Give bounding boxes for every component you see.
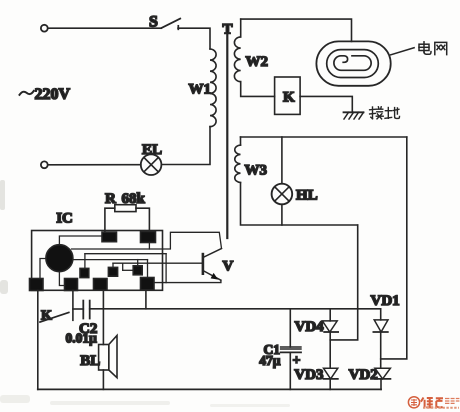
svg-text:47μ: 47μ — [259, 353, 281, 368]
wire W3 loop top — [241, 136, 407, 138]
svg-text:R: R — [105, 191, 116, 207]
wire top AC line to switch — [48, 27, 162, 29]
label ~220V — [20, 91, 34, 95]
capacitor C2 — [82, 301, 84, 319]
wire W2 top to grid symbol — [241, 19, 352, 41]
svg-text:VD2: VD2 — [349, 367, 378, 383]
IC bottom pad 3 — [94, 279, 108, 291]
IC bond wire die to top pad2 and collector loop — [72, 232, 222, 249]
svg-text:0.01μ: 0.01μ — [66, 331, 98, 346]
lamp HL — [272, 184, 293, 205]
IC top pad 1 — [102, 232, 117, 242]
scan smudges — [0, 180, 290, 407]
winding W3 — [240, 137, 242, 145]
wire W1 bottom to lamp EL — [162, 127, 211, 165]
svg-text:K: K — [41, 309, 52, 324]
wire IC pad1 down left rail — [37, 291, 39, 390]
winding W1 — [210, 49, 216, 127]
IC bottom pad 1 — [30, 279, 44, 291]
speaker BL — [99, 345, 109, 371]
wire emitter return to IC pad4 — [154, 280, 221, 282]
terminal bottom-left — [41, 161, 48, 168]
wire W3 bottom — [241, 183, 358, 226]
wire main positive rail C2 to VD1 — [90, 308, 381, 310]
relay coil K — [275, 77, 301, 114]
IC base wire zigzag — [113, 263, 133, 270]
svg-text:VD4: VD4 — [295, 319, 325, 335]
capacitor C1 — [289, 309, 291, 347]
svg-text:BL: BL — [80, 353, 100, 369]
IC bottom pad 2 — [65, 279, 78, 291]
IC box — [32, 231, 163, 291]
svg-text:EL: EL — [142, 142, 162, 158]
svg-text:W1: W1 — [189, 82, 212, 98]
IC bond wire die to bottom pad1 — [40, 259, 46, 279]
switch S blade — [161, 19, 180, 28]
IC die circle — [46, 245, 73, 272]
IC bond wire row y=253.7 to emitter net — [85, 254, 166, 283]
svg-text:S: S — [149, 14, 158, 31]
IC bottom pad 4 — [141, 278, 155, 290]
label 电网 (power grid) hand-drawn glyphs — [419, 42, 447, 55]
diode VD3 — [324, 368, 338, 379]
svg-text:K: K — [283, 90, 295, 106]
switch K blade — [40, 313, 69, 323]
svg-text:220V: 220V — [35, 86, 71, 103]
IC top pad 2 — [141, 232, 156, 243]
wire W3-top down to VD1/VD2 junction — [381, 137, 407, 359]
transistor V collector — [203, 249, 222, 258]
wire speaker to bottom rail — [102, 370, 104, 389]
svg-text:VD3: VD3 — [294, 367, 323, 383]
wire IC pad3 down to speaker — [102, 290, 104, 344]
wire HL to lower rail — [281, 204, 283, 225]
resistor R 68k — [115, 205, 136, 212]
watermark logo — [408, 397, 459, 408]
power grid spiral symbol — [316, 41, 390, 85]
diode VD2 — [375, 368, 391, 379]
pointer line to grid label — [391, 48, 414, 55]
switch S right contact — [177, 26, 179, 30]
wire R left to IC pin — [105, 208, 115, 232]
wire R right to IC pin — [136, 208, 149, 231]
wire W3-bottom down to VD4/VD3 junction — [330, 225, 358, 340]
IC inner square c — [133, 266, 142, 275]
wire EL to bottom terminal — [48, 164, 141, 166]
IC inner square b — [108, 267, 117, 276]
svg-text:T: T — [223, 22, 233, 38]
transistor V emitter with arrow — [203, 271, 221, 281]
wire to C2 — [73, 308, 83, 310]
bottom ground rail — [38, 388, 381, 390]
wire IC pad2 down to switch contact — [72, 290, 74, 320]
ground — [344, 111, 364, 113]
IC bond wire row y=259.6 to bottom pad4 — [73, 260, 148, 278]
svg-text:IC: IC — [56, 211, 73, 227]
wire K to ground — [300, 96, 352, 112]
svg-text:VD1: VD1 — [371, 293, 400, 309]
winding W2 — [240, 19, 242, 37]
transistor V base wire — [113, 262, 203, 264]
diode VD1 — [380, 309, 382, 320]
IC bond wire die to top pad1 — [59, 236, 102, 245]
wire W2 bottom to relay K — [241, 82, 275, 97]
svg-text:V: V — [223, 259, 234, 275]
terminal top-left — [41, 25, 48, 32]
label 接地 (earth) hand-drawn glyphs — [370, 107, 400, 119]
IC bond wire die to bottom pad2 — [59, 272, 64, 286]
svg-text:W2: W2 — [246, 54, 269, 70]
svg-text:W3: W3 — [245, 163, 268, 179]
wire switch to W1 top — [178, 28, 210, 49]
IC inner square a — [80, 268, 89, 277]
transformer T core — [226, 35, 228, 238]
wire HL drop — [281, 137, 283, 184]
lamp EL — [141, 154, 162, 175]
svg-text:HL: HL — [296, 188, 318, 204]
wire IC pad4 down to rail — [145, 290, 147, 309]
diode VD4 — [329, 309, 331, 321]
transistor V bar — [202, 254, 205, 274]
svg-text:68k: 68k — [122, 191, 146, 207]
